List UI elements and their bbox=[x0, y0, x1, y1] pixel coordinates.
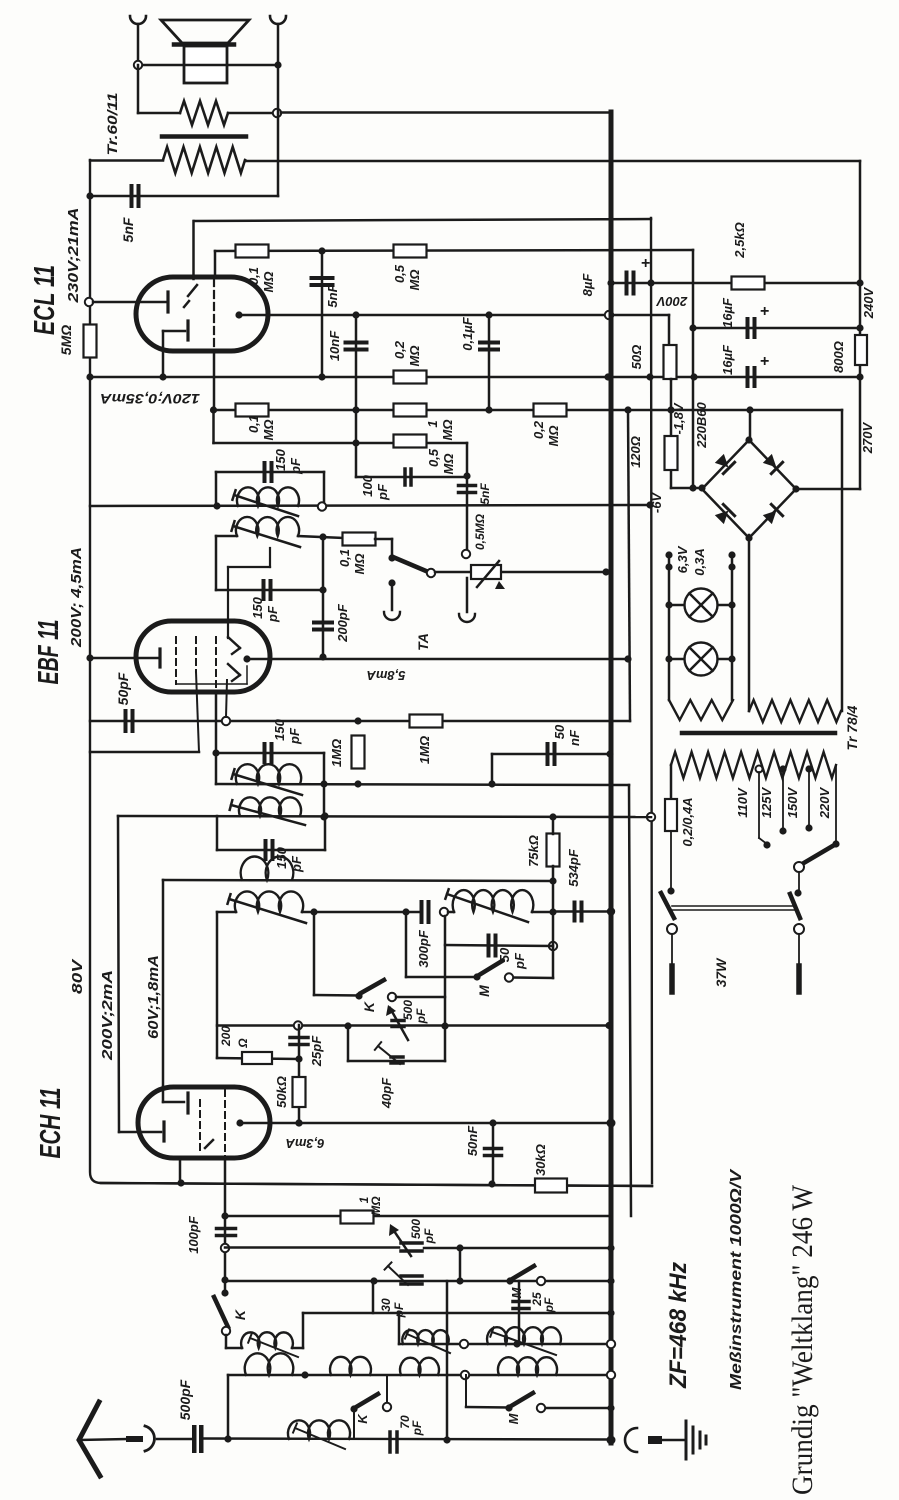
svg-text:MΩ: MΩ bbox=[369, 1196, 383, 1216]
svg-text:+: + bbox=[760, 303, 769, 320]
svg-text:5MΩ: 5MΩ bbox=[58, 325, 74, 355]
svg-text:150: 150 bbox=[272, 718, 287, 740]
svg-text:5nF: 5nF bbox=[325, 283, 340, 307]
svg-text:50nF: 50nF bbox=[465, 1125, 480, 1156]
svg-text:125V: 125V bbox=[759, 786, 774, 818]
svg-text:Grundig "Weltklang" 246 W: Grundig "Weltklang" 246 W bbox=[786, 1184, 819, 1495]
svg-text:1MΩ: 1MΩ bbox=[417, 736, 432, 764]
svg-text:MΩ: MΩ bbox=[546, 426, 561, 447]
svg-text:K: K bbox=[232, 1309, 248, 1320]
svg-text:60V;1,8mA: 60V;1,8mA bbox=[145, 955, 162, 1039]
svg-text:0,3A: 0,3A bbox=[692, 548, 707, 575]
svg-text:100pF: 100pF bbox=[186, 1215, 201, 1254]
svg-text:MΩ: MΩ bbox=[441, 454, 456, 475]
svg-text:16µF: 16µF bbox=[720, 297, 735, 328]
svg-text:200V; 4,5mA: 200V; 4,5mA bbox=[68, 547, 85, 648]
svg-text:150: 150 bbox=[273, 448, 288, 470]
svg-text:6,3V: 6,3V bbox=[675, 545, 690, 573]
svg-text:pF: pF bbox=[287, 727, 302, 745]
svg-text:MΩ: MΩ bbox=[261, 420, 276, 441]
svg-text:30: 30 bbox=[379, 1298, 393, 1312]
svg-text:pF: pF bbox=[410, 1420, 424, 1436]
svg-text:0,5: 0,5 bbox=[392, 264, 407, 283]
svg-text:-6V: -6V bbox=[649, 492, 664, 514]
svg-text:Ω: Ω bbox=[236, 1038, 250, 1049]
svg-text:Tr.60/11: Tr.60/11 bbox=[104, 92, 120, 155]
svg-text:+: + bbox=[760, 353, 769, 370]
svg-text:+: + bbox=[641, 255, 650, 272]
svg-text:MΩ: MΩ bbox=[407, 270, 422, 291]
svg-text:MΩ: MΩ bbox=[352, 554, 367, 575]
svg-text:pF: pF bbox=[542, 1297, 556, 1313]
svg-text:150: 150 bbox=[250, 596, 265, 618]
svg-text:200V: 200V bbox=[655, 294, 688, 309]
svg-text:80V: 80V bbox=[69, 957, 86, 994]
svg-text:120V;0,35mA: 120V;0,35mA bbox=[100, 391, 200, 407]
svg-text:150V: 150V bbox=[785, 786, 800, 818]
svg-text:50Ω: 50Ω bbox=[629, 345, 644, 370]
svg-text:K: K bbox=[355, 1413, 370, 1424]
svg-text:270V: 270V bbox=[860, 421, 875, 454]
svg-text:pF: pF bbox=[422, 1228, 436, 1244]
svg-text:TA: TA bbox=[415, 633, 431, 651]
svg-text:220V: 220V bbox=[817, 786, 832, 819]
svg-text:MΩ: MΩ bbox=[407, 346, 422, 367]
svg-text:110V: 110V bbox=[735, 787, 750, 818]
svg-text:MΩ: MΩ bbox=[440, 420, 455, 441]
svg-text:0,1: 0,1 bbox=[246, 267, 261, 285]
svg-text:10nF: 10nF bbox=[327, 330, 342, 361]
svg-text:120Ω: 120Ω bbox=[628, 436, 643, 468]
svg-text:pF: pF bbox=[265, 605, 280, 623]
svg-text:0,5MΩ: 0,5MΩ bbox=[473, 513, 487, 550]
svg-text:50: 50 bbox=[552, 724, 567, 739]
svg-text:Tr 78/4: Tr 78/4 bbox=[844, 705, 860, 750]
svg-text:50kΩ: 50kΩ bbox=[274, 1076, 289, 1108]
svg-text:220B60: 220B60 bbox=[694, 401, 709, 448]
svg-text:EBF 11: EBF 11 bbox=[33, 620, 65, 685]
svg-text:pF: pF bbox=[375, 483, 390, 501]
svg-text:100: 100 bbox=[360, 474, 375, 496]
svg-text:200V;2mA: 200V;2mA bbox=[99, 970, 116, 1061]
svg-text:300pF: 300pF bbox=[416, 929, 431, 968]
svg-text:5,8mA: 5,8mA bbox=[366, 668, 405, 683]
svg-text:37W: 37W bbox=[713, 957, 729, 988]
svg-text:ECH 11: ECH 11 bbox=[35, 1088, 67, 1159]
svg-text:0,1: 0,1 bbox=[246, 415, 261, 433]
svg-text:1: 1 bbox=[425, 420, 440, 427]
svg-text:M: M bbox=[506, 1412, 521, 1424]
svg-text:50pF: 50pF bbox=[115, 672, 131, 705]
svg-text:5nF: 5nF bbox=[120, 217, 136, 242]
svg-text:ZF=468 kHz: ZF=468 kHz bbox=[665, 1262, 692, 1389]
svg-text:240V: 240V bbox=[861, 286, 876, 319]
svg-text:200pF: 200pF bbox=[335, 603, 350, 643]
svg-text:0,2/0,4A: 0,2/0,4A bbox=[680, 797, 695, 846]
svg-text:16µF: 16µF bbox=[720, 344, 735, 375]
svg-text:pF: pF bbox=[512, 952, 527, 970]
svg-text:M: M bbox=[476, 985, 492, 997]
svg-text:nF: nF bbox=[567, 729, 582, 746]
svg-text:0,1: 0,1 bbox=[337, 549, 352, 567]
svg-text:50: 50 bbox=[497, 947, 512, 962]
svg-text:ECL 11: ECL 11 bbox=[29, 265, 61, 335]
svg-text:5nF: 5nF bbox=[478, 483, 492, 505]
svg-text:534pF: 534pF bbox=[566, 848, 581, 887]
svg-text:0,2: 0,2 bbox=[392, 340, 407, 359]
svg-text:6,3mA: 6,3mA bbox=[285, 1136, 324, 1151]
svg-text:0,1µF: 0,1µF bbox=[460, 316, 475, 351]
svg-text:K: K bbox=[361, 1001, 377, 1012]
svg-text:500: 500 bbox=[401, 1000, 415, 1020]
svg-text:500: 500 bbox=[409, 1219, 423, 1239]
svg-text:MΩ: MΩ bbox=[261, 272, 276, 293]
svg-text:40pF: 40pF bbox=[379, 1077, 394, 1109]
svg-text:1MΩ: 1MΩ bbox=[329, 739, 344, 767]
svg-text:800Ω: 800Ω bbox=[831, 341, 846, 373]
svg-text:230V;21mA: 230V;21mA bbox=[65, 208, 82, 304]
svg-text:75kΩ: 75kΩ bbox=[526, 835, 541, 867]
svg-text:M: M bbox=[509, 1286, 524, 1298]
svg-text:2,5kΩ: 2,5kΩ bbox=[732, 222, 747, 258]
svg-text:pF: pF bbox=[414, 1008, 428, 1024]
svg-text:200: 200 bbox=[219, 1026, 233, 1047]
svg-text:Meßinstrument 1000Ω/V: Meßinstrument 1000Ω/V bbox=[728, 1168, 745, 1390]
svg-text:0,2: 0,2 bbox=[531, 420, 546, 439]
svg-text:25pF: 25pF bbox=[309, 1035, 324, 1067]
svg-text:30kΩ: 30kΩ bbox=[533, 1144, 548, 1176]
svg-text:500pF: 500pF bbox=[177, 1379, 193, 1420]
svg-text:8µF: 8µF bbox=[580, 273, 595, 297]
svg-text:0,5: 0,5 bbox=[426, 448, 441, 467]
svg-text:pF: pF bbox=[288, 457, 303, 475]
svg-text:-1,8V: -1,8V bbox=[671, 402, 686, 434]
